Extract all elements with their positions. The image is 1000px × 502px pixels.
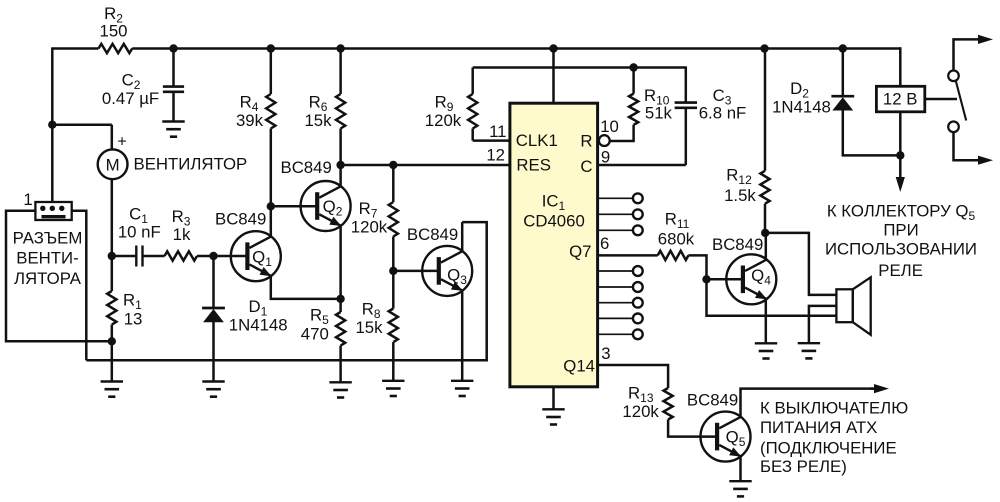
motor M fan [98,149,128,179]
ground under Q3 emitter [451,380,473,382]
wire Q1 collector [270,206,273,237]
wire Q4 base [707,278,742,281]
node junction C1 / motor / R1 [108,252,116,260]
svg-text:R: R [580,131,592,150]
wire Q5 emitter [739,456,742,481]
wire R8 bottom [392,342,395,380]
node junction R7 / R8 / Q3 base [389,267,397,275]
node junction R10 / osc top [629,63,637,71]
svg-text:12: 12 [486,145,505,164]
wire R1 top [111,256,114,291]
resistor R9 [468,94,477,129]
transistor Q5 [701,412,751,462]
capacitor C2 [163,85,184,88]
switch lever [956,81,967,121]
ground under R8 [382,380,404,382]
svg-text:+: + [117,134,126,151]
svg-text:0.47 µF: 0.47 µF [102,89,159,108]
svg-text:6: 6 [600,234,609,253]
svg-text:БЕЗ РЕЛЕ): БЕЗ РЕЛЕ) [760,457,847,476]
wire Q2 collector [339,165,342,187]
wire Q3 collector [461,222,464,252]
switch contact bottom [948,122,959,133]
node junction rail / D2 [839,44,847,52]
svg-text:10 nF: 10 nF [118,223,161,242]
svg-text:12 В: 12 В [883,90,918,109]
wire C1 to R3 [143,255,165,258]
node junction rail / R6 [336,44,344,52]
svg-text:ПИТАНИЯ ATX: ПИТАНИЯ ATX [760,418,877,437]
wire R10 bottom [610,125,634,141]
capacitor C3 [675,101,697,104]
wire motor to C1 node [111,179,114,257]
svg-text:39k: 39k [236,111,264,130]
resistor R10 [629,94,638,125]
wire Q4 base to speaker bottom terminal [707,279,837,316]
ground under R5 [329,381,351,383]
wire R5 top [339,299,342,312]
wire R13 to Q5 base [668,420,716,437]
transistor Q3 [422,246,472,296]
wire R9 bottom [471,129,474,141]
ground under speaker [798,342,820,344]
node junction Q1/Q2 emitters / R5 [336,295,344,303]
node junction R7 tap [389,161,397,169]
IC unused output stub 2 [598,213,633,215]
wire switch common [925,98,957,101]
wire top rail R2 to relay [132,47,901,50]
node junction top rail / C2 [169,44,177,52]
connector fan socket [35,202,71,220]
transistor Q1 [231,231,281,281]
IC unused output stub 5 [598,286,633,288]
wire R11 to Q4 base drop [688,255,706,279]
svg-text:1: 1 [23,190,32,209]
svg-text:Q3: Q3 [447,266,467,288]
IC pin10 bubble [599,135,610,146]
svg-text:15k: 15k [355,318,383,337]
svg-text:120k: 120k [622,402,659,421]
svg-text:3: 3 [601,344,610,363]
wire Q7 to R11 [598,254,658,257]
wire Q2 collector to IC RES [341,164,510,167]
wire R7 bottom [392,237,395,271]
arrow to collector Q5 [899,155,902,180]
speaker LS1 [836,289,852,322]
IC unused output stub 1 [598,197,633,199]
node junction Q4 base [702,275,710,283]
diode D1 [202,307,225,310]
wire Q4 collector [765,233,768,260]
svg-text:1.5k: 1.5k [724,186,756,205]
wire C3 bottom [685,108,688,165]
svg-text:1k: 1k [173,225,191,244]
node junction relay / D2 / arrow [896,151,904,159]
wire switch bottom throw [954,132,980,160]
svg-text:Q1: Q1 [252,248,272,270]
wire R4 bottom [270,129,273,207]
svg-text:51k: 51k [645,104,673,123]
wire Q2 base [271,205,317,208]
svg-text:Q7: Q7 [569,242,591,261]
svg-text:150: 150 [100,22,128,41]
transistor Q4 [726,254,776,304]
svg-text:C: C [580,157,592,176]
wire C1 left [112,255,137,258]
wire R3 to node [197,255,214,258]
svg-text:Q14: Q14 [563,356,595,375]
svg-text:ВЕНТИЛЯТОР: ВЕНТИЛЯТОР [134,154,248,173]
wire relay coil bottom [899,112,902,156]
switch contact top [948,71,959,82]
resistor R4 [266,94,275,129]
resistor R6 [336,94,345,129]
svg-text:CLK1: CLK1 [516,131,558,150]
ground under IC [542,408,564,410]
svg-text:Q5: Q5 [726,427,746,449]
svg-text:BC849: BC849 [215,210,266,229]
node junction rail / IC pin16 [549,44,557,52]
node junction R3 / D1 / Q1 base [209,252,217,260]
svg-text:13: 13 [124,310,143,329]
svg-text:ЛЯТОРА: ЛЯТОРА [14,269,82,288]
IC unused output stub 6 [598,302,633,304]
wire left drop to fan connector pin 2 [51,47,54,203]
wire switch top throw [954,39,980,70]
wire D1 top [212,256,215,307]
svg-text:6.8 nF: 6.8 nF [699,104,747,123]
IC unused output stub 7 [598,317,633,319]
wire IC pin16 to rail [552,49,555,104]
ground under C2 [162,120,184,122]
svg-text:BC849: BC849 [712,235,763,254]
svg-text:Q2: Q2 [323,197,343,219]
arrow to ATX switch [870,387,877,390]
wire relay coil top [900,49,901,87]
wire speaker top terminal [765,233,836,295]
svg-text:11: 11 [489,122,506,141]
IC unused output stub 4 [598,270,633,272]
svg-text:(ПОДКЛЮЧЕНИЕ: (ПОДКЛЮЧЕНИЕ [760,439,897,458]
svg-text:РАЗЪЕМ: РАЗЪЕМ [13,228,83,247]
node junction R4 / Q1 collector / Q2 base [267,202,275,210]
relay coil 12V box [876,86,924,112]
svg-text:120k: 120k [351,217,388,236]
wire R1 bottom [111,325,114,382]
resistor R11 [658,251,689,260]
wire Q14 out [598,365,669,388]
svg-text:M: M [106,155,120,174]
IC unused output stub 3 [598,229,633,231]
capacitor C1 [135,246,137,267]
resistor R12 [760,171,769,204]
wire R7 top [392,165,395,202]
svg-text:RES: RES [516,156,551,175]
svg-text:1N4148: 1N4148 [772,98,831,117]
resistor R7 [389,202,398,237]
wire Q2 emitter [339,225,342,299]
svg-text:CD4060: CD4060 [523,211,585,230]
wire speaker mid terminal to ground [809,306,837,343]
resistor R8 [389,309,398,343]
wire R8 top [392,271,395,309]
node junction rail / R12 [760,44,768,52]
svg-text:R11: R11 [665,210,690,232]
wire R6 bottom [339,129,342,166]
wire R12 top [764,49,767,171]
wire R10 top [632,68,635,94]
wire +12V top rail [52,47,98,50]
svg-text:ИСПОЛЬЗОВАНИИ: ИСПОЛЬЗОВАНИИ [825,239,977,258]
resistor R1 [107,291,116,325]
ground under Q5 [729,480,751,482]
wire bottom rail to Q3 collector [86,222,486,360]
svg-text:ПРИ: ПРИ [883,221,918,240]
svg-text:1N4148: 1N4148 [229,316,288,335]
svg-text:BC849: BC849 [687,390,738,409]
wire Q4 emitter [765,299,768,343]
wire D2 top [842,49,845,96]
wire R4 top [270,49,273,95]
ground under Q4 [755,342,777,344]
arrow switch bottom [978,159,981,162]
svg-text:BC849: BC849 [281,158,332,177]
ground under D1 [202,380,224,382]
wire C2 to rail [172,49,175,86]
wire IC pin11 [473,139,510,142]
IC unused output stub 8 [598,333,633,335]
wire D2 bottom [843,110,901,155]
wire Q3 emitter [461,290,464,380]
arrow switch top [978,38,981,41]
wire D1 bottom [212,322,215,382]
svg-text:470: 470 [301,325,329,344]
svg-text:BC849: BC849 [407,225,458,244]
wire C3 top [685,66,688,102]
node junction rail / R4 [267,44,275,52]
wire Q1 base [214,255,247,258]
wire R5 bottom [339,346,342,382]
wire oscillator top [473,66,686,69]
resistor R3 [165,251,198,260]
IC U1 CD4060 body [510,103,598,387]
svg-text:9: 9 [601,147,610,166]
ground under R1 [101,380,123,382]
resistor R2 [99,44,133,53]
svg-text:Q4: Q4 [751,266,771,288]
wire IC pin9 [598,164,686,167]
svg-text:10: 10 [600,117,619,136]
node junction R1 / connector pin1 [108,337,116,345]
node junction Q2 collector / R6 [336,161,344,169]
node junction motor tap [48,121,56,129]
svg-text:РЕЛЕ: РЕЛЕ [878,261,923,280]
svg-text:15k: 15k [304,111,332,130]
wire Q1 emitter [271,275,341,299]
svg-text:680k: 680k [658,230,695,249]
resistor R13 [664,388,673,420]
wire Q3 base [393,270,438,273]
wire connector pin3 loop [72,211,87,361]
svg-text:R12: R12 [726,166,752,188]
wire R6 top [339,49,342,95]
wire Q5 collector [741,389,875,418]
diode D2 [831,95,854,98]
resistor R5 [336,312,345,346]
wire connector pin1 loop [6,211,112,342]
svg-text:К ВЫКЛЮЧАТЕЛЮ: К ВЫКЛЮЧАТЕЛЮ [760,399,908,418]
svg-text:ВЕНТИ-: ВЕНТИ- [16,249,78,268]
node junction R12 / Q4 collector / speaker [761,229,769,237]
wire R12 bottom [764,204,767,233]
IC ground wire [552,387,555,409]
wire R9 top [471,68,474,95]
svg-text:120k: 120k [425,111,462,130]
wire motor branch [52,123,112,126]
transistor Q2 [301,181,351,231]
wire C2 to ground [172,93,175,121]
